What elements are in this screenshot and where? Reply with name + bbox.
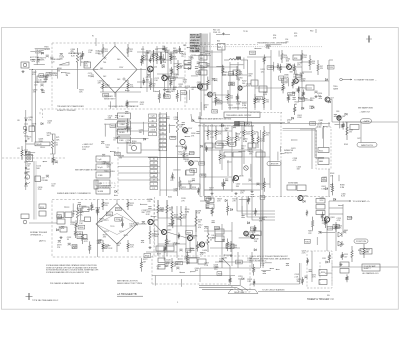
arrow to sweep trigger bbox=[342, 79, 352, 81]
junction bbox=[255, 48, 256, 49]
svg-text:TO CRT CIRCUIT BLANKING: TO CRT CIRCUIT BLANKING bbox=[262, 288, 285, 291]
svg-text:220K .05: 220K .05 bbox=[213, 32, 220, 34]
svg-text:R27: R27 bbox=[155, 49, 158, 51]
junction bbox=[28, 152, 29, 153]
callout position bbox=[354, 239, 368, 243]
resistor R1065 bbox=[312, 217, 314, 231]
label R234 bbox=[160, 207, 164, 211]
resistor R1020 bbox=[254, 208, 256, 216]
box range 3 bbox=[96, 172, 110, 178]
label C305 bbox=[341, 194, 346, 198]
wire bbox=[239, 279, 241, 285]
svg-text:120: 120 bbox=[304, 57, 307, 59]
label D434 bbox=[203, 250, 208, 254]
resistor R284 bbox=[171, 258, 173, 272]
resistor R1023 bbox=[227, 238, 229, 251]
transistor Q24 bbox=[148, 66, 154, 72]
capacitor C648 bbox=[169, 54, 172, 56]
label C516 bbox=[36, 166, 41, 170]
wire bbox=[88, 208, 95, 210]
wire staircase 4 bbox=[252, 197, 275, 220]
junction bbox=[125, 90, 126, 91]
capacitor C46 bbox=[161, 52, 163, 64]
svg-text:R613: R613 bbox=[229, 73, 233, 75]
wire bbox=[243, 58, 245, 69]
wire bbox=[77, 68, 79, 89]
label Q661 bbox=[225, 128, 230, 132]
callout gate out bbox=[361, 119, 372, 123]
wire rail bbox=[261, 200, 263, 262]
resistor R129 bbox=[243, 126, 245, 140]
label D272 bbox=[143, 259, 148, 263]
note normal trigger bbox=[30, 231, 48, 237]
label trigger source bbox=[35, 50, 45, 55]
svg-text:R694: R694 bbox=[190, 153, 194, 155]
transistor Q43 bbox=[198, 84, 203, 89]
label C506 bbox=[184, 256, 189, 260]
svg-text:Q63: Q63 bbox=[342, 116, 345, 118]
box R258 bbox=[196, 71, 201, 74]
label C608 bbox=[36, 60, 41, 64]
label R235 bbox=[169, 207, 173, 211]
label R423 bbox=[192, 87, 197, 91]
svg-text:OUT: OUT bbox=[357, 138, 361, 140]
svg-text:SHEET 2: SHEET 2 bbox=[364, 268, 371, 270]
resistor R1093 bbox=[253, 264, 255, 275]
resistor R894 bbox=[205, 146, 207, 152]
box C10 divider bbox=[37, 76, 46, 82]
svg-text:Q57: Q57 bbox=[330, 97, 333, 99]
resistor R1114 bbox=[293, 64, 295, 74]
junction bbox=[154, 91, 155, 92]
wire mag bus outer bbox=[283, 129, 324, 158]
wire bbox=[360, 122, 362, 143]
wire bbox=[250, 283, 300, 285]
wire bus A bbox=[199, 284, 240, 286]
capacitor C53 bbox=[216, 99, 219, 101]
label C170 bbox=[88, 73, 93, 77]
capacitor C797 bbox=[330, 185, 333, 187]
transistor Q265 bbox=[251, 235, 255, 239]
label R285 bbox=[185, 159, 190, 163]
svg-text:68: 68 bbox=[238, 80, 240, 82]
label R136 bbox=[51, 59, 56, 63]
wire bbox=[250, 164, 252, 178]
svg-text:470: 470 bbox=[179, 86, 182, 88]
wire rail bbox=[328, 60, 330, 96]
wire rail bbox=[221, 224, 223, 268]
wire bbox=[292, 66, 302, 68]
box R535 bbox=[205, 197, 211, 201]
svg-text:SEE WAVEFORMS: SEE WAVEFORMS bbox=[358, 107, 374, 110]
wire bbox=[185, 256, 200, 258]
wire rail bbox=[157, 200, 159, 256]
resistor R724 bbox=[207, 77, 209, 90]
wire bbox=[173, 169, 180, 171]
block border bbox=[250, 112, 282, 114]
wire bbox=[168, 77, 186, 79]
svg-text:220K: 220K bbox=[322, 223, 327, 225]
resistor R799 bbox=[331, 183, 333, 195]
wire staircase 1 bbox=[237, 197, 275, 211]
power block border bbox=[152, 256, 250, 292]
label cal bbox=[117, 136, 121, 139]
box R353 bbox=[199, 162, 205, 166]
label R474 bbox=[300, 73, 305, 77]
connector J2 bbox=[27, 156, 31, 160]
label R60 bbox=[310, 31, 313, 33]
capacitor C660 bbox=[188, 62, 191, 64]
label Q203 bbox=[47, 120, 52, 124]
capacitor C603 bbox=[60, 53, 63, 55]
wire bbox=[261, 269, 270, 271]
label C157 bbox=[236, 101, 241, 105]
diode D688 bbox=[163, 74, 165, 76]
box R310 bbox=[333, 224, 339, 228]
junction bbox=[79, 206, 80, 207]
resistor R771 bbox=[277, 63, 279, 70]
label Q290 bbox=[66, 73, 71, 77]
capacitor C685 bbox=[147, 74, 150, 76]
svg-text:220K: 220K bbox=[39, 141, 44, 143]
svg-text:1 SEC: 1 SEC bbox=[119, 116, 125, 118]
junction bbox=[114, 195, 115, 196]
label line trigger bbox=[68, 53, 82, 55]
svg-text:100: 100 bbox=[47, 135, 50, 137]
svg-text:330: 330 bbox=[139, 132, 142, 134]
resistor R1113 bbox=[287, 94, 289, 102]
label C138 bbox=[141, 210, 146, 214]
svg-text:10: 10 bbox=[153, 159, 155, 161]
wire bbox=[241, 59, 248, 61]
connector J30 bbox=[21, 62, 29, 68]
wire rail bbox=[241, 126, 243, 176]
capacitor C604 bbox=[91, 75, 94, 77]
svg-text:68: 68 bbox=[254, 134, 256, 136]
wire tie bbox=[222, 74, 247, 76]
wire bbox=[163, 249, 165, 260]
box triggering level centering bbox=[224, 112, 260, 118]
svg-text:VOLT SWP: VOLT SWP bbox=[190, 37, 201, 39]
label C601 bbox=[321, 186, 326, 190]
label C133 bbox=[67, 237, 72, 241]
wire bbox=[216, 33, 230, 35]
box R202 bbox=[39, 211, 46, 216]
wire bbox=[154, 230, 157, 232]
capacitor C1041 bbox=[207, 202, 210, 204]
resistor R761 bbox=[279, 64, 281, 73]
svg-text:DELAY: DELAY bbox=[36, 143, 43, 146]
svg-text:D223: D223 bbox=[104, 231, 109, 233]
box R229 bbox=[180, 91, 186, 95]
label D338 bbox=[247, 258, 252, 262]
wire bbox=[125, 128, 131, 130]
label R434 bbox=[84, 239, 89, 243]
resistor R1100 bbox=[301, 277, 303, 285]
ground bbox=[234, 192, 237, 195]
svg-text:5 MS: 5 MS bbox=[98, 183, 103, 185]
svg-text:T220: T220 bbox=[110, 226, 114, 228]
ground bbox=[250, 190, 253, 193]
label R28 bbox=[173, 56, 178, 60]
wire left rail bbox=[25, 110, 27, 190]
resistor R261 bbox=[207, 226, 209, 252]
box R292 bbox=[340, 269, 349, 274]
wire rail bbox=[263, 60, 265, 110]
label Q564 bbox=[286, 58, 291, 62]
capacitor C134 bbox=[248, 179, 251, 181]
wire bbox=[195, 54, 211, 56]
wire bbox=[140, 203, 147, 205]
wire mag bus inner bbox=[283, 130, 324, 159]
capacitor C984 bbox=[142, 221, 145, 223]
svg-text:(AUTO): (AUTO) bbox=[39, 240, 46, 243]
svg-text:R658: R658 bbox=[145, 256, 149, 258]
label interconnect bbox=[364, 265, 377, 270]
label D196 bbox=[177, 217, 182, 221]
svg-text:R354: R354 bbox=[171, 137, 175, 139]
wire bbox=[203, 104, 205, 110]
resistor R238 bbox=[195, 210, 197, 232]
label R119 bbox=[181, 198, 185, 202]
connector J203 bbox=[23, 220, 27, 224]
wire tie bbox=[158, 217, 186, 219]
junction bbox=[124, 235, 125, 236]
label Q419 bbox=[204, 105, 209, 109]
wire rail bbox=[211, 50, 213, 110]
diode D1055 bbox=[334, 198, 336, 200]
label D120 bbox=[166, 260, 171, 264]
label Q323 bbox=[173, 242, 178, 246]
wire bbox=[298, 86, 300, 98]
svg-text:R298: R298 bbox=[165, 97, 169, 99]
wire tie bbox=[137, 81, 150, 83]
label C603 bbox=[297, 166, 302, 170]
box R308 bbox=[46, 73, 52, 76]
wire bbox=[109, 169, 111, 177]
label R225 bbox=[78, 210, 83, 214]
power block border bbox=[152, 256, 250, 284]
label R202 bbox=[242, 81, 247, 85]
wire bbox=[151, 78, 153, 85]
label Q419 bbox=[302, 250, 307, 254]
wire bbox=[311, 251, 313, 282]
box R310 bbox=[319, 270, 327, 276]
resistor R953 bbox=[91, 202, 93, 210]
label R388 bbox=[340, 185, 345, 189]
label R57 bbox=[320, 66, 324, 70]
svg-text:SEMICONDUCTOR TYPES: SEMICONDUCTOR TYPES bbox=[117, 283, 143, 285]
svg-text:3.3M: 3.3M bbox=[185, 211, 190, 213]
box R257 bbox=[39, 74, 44, 78]
box R170 bbox=[212, 110, 218, 113]
label C54 bbox=[285, 39, 289, 43]
resistor R305 bbox=[335, 222, 337, 232]
capacitor C925 bbox=[58, 240, 61, 242]
wire rail bbox=[262, 132, 264, 268]
wire bbox=[200, 267, 260, 269]
resistor R56 bbox=[309, 55, 311, 70]
svg-text:470: 470 bbox=[286, 66, 289, 68]
label D120 bbox=[60, 56, 65, 60]
wire bbox=[270, 66, 286, 68]
svg-text:SEE IMPORTANT NOTE: SEE IMPORTANT NOTE bbox=[75, 168, 97, 171]
label D678 bbox=[200, 52, 205, 56]
svg-text:3.3M: 3.3M bbox=[243, 141, 248, 143]
label R518 bbox=[96, 207, 101, 211]
wire bbox=[273, 62, 275, 72]
diode D861 bbox=[182, 146, 184, 148]
parts note bbox=[117, 280, 143, 286]
box R548 bbox=[115, 208, 121, 211]
inductor L46 bbox=[229, 57, 241, 61]
wire trigger input bbox=[29, 69, 98, 71]
capacitor C790 bbox=[334, 115, 337, 117]
label D472 bbox=[163, 47, 168, 51]
junction bbox=[140, 87, 141, 88]
label R284 bbox=[174, 263, 178, 267]
label R262 bbox=[178, 152, 183, 156]
junction bbox=[59, 227, 60, 228]
diode D12 bbox=[59, 62, 69, 65]
wire tie bbox=[215, 261, 252, 263]
svg-text:470: 470 bbox=[217, 201, 220, 203]
svg-text:470: 470 bbox=[266, 135, 269, 137]
svg-text:.1: .1 bbox=[162, 137, 164, 139]
transistor Q34 bbox=[162, 75, 167, 80]
svg-text:R378: R378 bbox=[246, 124, 250, 126]
svg-text:TRIGGERING LEVEL CENTERING: TRIGGERING LEVEL CENTERING bbox=[257, 43, 288, 45]
box R44 bbox=[199, 63, 207, 68]
label Q314 bbox=[318, 93, 323, 97]
label R643 bbox=[99, 219, 104, 223]
svg-text:1: 1 bbox=[152, 134, 153, 136]
label C220 bbox=[126, 140, 131, 144]
wire bbox=[184, 170, 186, 175]
label D355 bbox=[242, 103, 247, 107]
label R221 bbox=[105, 203, 109, 207]
capacitor C834 bbox=[115, 116, 118, 118]
svg-text:.5: .5 bbox=[162, 120, 164, 122]
svg-text:R310: R310 bbox=[321, 272, 325, 274]
resistor R72 bbox=[21, 146, 23, 160]
svg-text:SCHMITT TRIGGER: SCHMITT TRIGGER bbox=[57, 110, 76, 112]
capacitor C28 bbox=[169, 69, 172, 71]
label Q229 bbox=[170, 56, 175, 60]
resistor R760 bbox=[297, 87, 299, 93]
svg-text:R201: R201 bbox=[40, 207, 44, 209]
label R112 bbox=[186, 153, 190, 157]
label R485 bbox=[166, 77, 171, 81]
box R128 bbox=[215, 226, 220, 229]
resistor R132 bbox=[257, 132, 259, 148]
label R604 bbox=[236, 134, 241, 138]
junction bbox=[40, 147, 41, 148]
label Q325 bbox=[322, 177, 327, 181]
wire rail bbox=[166, 200, 168, 256]
delay line bbox=[35, 142, 50, 146]
box interconnect bbox=[362, 264, 380, 271]
svg-text:TYPE 3B4 TIME-BASE FIG 2: TYPE 3B4 TIME-BASE FIG 2 bbox=[32, 299, 59, 302]
wire tie bbox=[242, 183, 270, 185]
wire bbox=[345, 121, 361, 123]
svg-text:120: 120 bbox=[261, 71, 264, 73]
resistor R46 bbox=[236, 66, 238, 80]
junction bbox=[176, 243, 177, 244]
box R126 bbox=[224, 152, 232, 157]
wire bbox=[228, 161, 232, 163]
diode D893 bbox=[221, 125, 223, 127]
label R25 bbox=[145, 56, 149, 60]
label D585 bbox=[223, 72, 228, 76]
label C135 bbox=[139, 130, 144, 134]
svg-text:J21: J21 bbox=[17, 148, 20, 150]
label Q255 bbox=[253, 99, 258, 103]
wire bbox=[104, 125, 106, 137]
diode D1049 bbox=[326, 261, 328, 263]
svg-text:R170: R170 bbox=[213, 111, 217, 113]
svg-text:R522: R522 bbox=[230, 144, 234, 146]
wire tick bbox=[24, 149, 28, 151]
wire rail bbox=[311, 129, 313, 169]
resistor R241 bbox=[149, 226, 151, 244]
wire tie bbox=[157, 73, 178, 75]
label R133 bbox=[266, 132, 270, 136]
label C291 bbox=[98, 239, 103, 243]
svg-text:GATE: GATE bbox=[333, 88, 339, 91]
wire tie bbox=[204, 66, 238, 68]
svg-text:100: 100 bbox=[287, 122, 290, 124]
svg-text:10: 10 bbox=[162, 124, 164, 126]
wire rail bbox=[342, 204, 344, 232]
wire staircase 3 bbox=[247, 197, 275, 217]
wire bbox=[137, 223, 147, 225]
label C499 bbox=[51, 160, 56, 164]
svg-text:470: 470 bbox=[43, 81, 46, 83]
label R420 bbox=[301, 78, 306, 82]
label C315 bbox=[344, 254, 348, 258]
wire bbox=[116, 199, 118, 204]
wire bbox=[81, 61, 84, 63]
wire bbox=[140, 68, 142, 88]
junction bbox=[32, 69, 33, 70]
label C215 bbox=[337, 218, 342, 222]
label Q260 bbox=[238, 77, 243, 81]
wire tie bbox=[204, 130, 232, 132]
label R46 bbox=[239, 71, 243, 75]
wire bbox=[225, 143, 230, 145]
check note bbox=[250, 255, 291, 263]
capacitor C1118 bbox=[293, 98, 296, 100]
resistor R679 bbox=[160, 54, 162, 62]
resistor R987 bbox=[165, 235, 167, 249]
svg-text:R128: R128 bbox=[216, 228, 220, 230]
resistor R884 bbox=[232, 177, 234, 183]
box R513 bbox=[279, 76, 284, 80]
label Q320 bbox=[181, 54, 186, 58]
wire rail bbox=[270, 50, 272, 110]
wire rail bbox=[153, 50, 155, 92]
svg-text:SWEEP AND RESET COMPARATOR: SWEEP AND RESET COMPARATOR bbox=[57, 192, 91, 195]
svg-text:R258: R258 bbox=[197, 72, 201, 74]
box R517 bbox=[176, 261, 183, 264]
block border bbox=[200, 196, 330, 198]
transistor Q114 bbox=[189, 161, 194, 166]
svg-text:NOTE 45: NOTE 45 bbox=[190, 34, 200, 37]
block border dotted bbox=[200, 46, 322, 48]
wire switch rail bbox=[166, 112, 168, 196]
wire bbox=[287, 78, 289, 87]
